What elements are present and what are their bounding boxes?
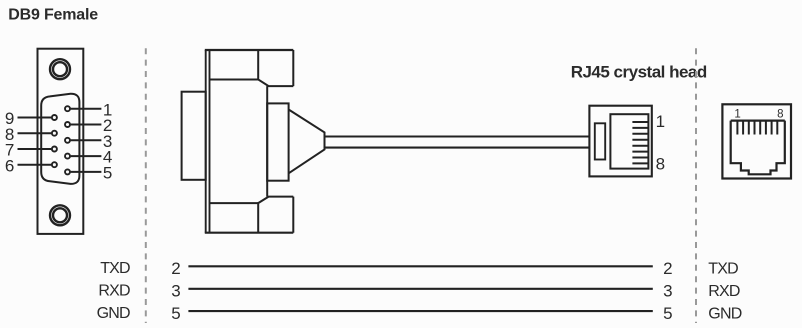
svg-text:GND: GND (97, 305, 130, 322)
RJ45 plug P1 outer body (589, 106, 651, 177)
RJ45 jack contact 5 (759, 121, 761, 135)
svg-text:5: 5 (103, 164, 112, 183)
leader line pin 2 (71, 124, 102, 126)
leader line pin 3 (71, 139, 102, 141)
hood bottom-right block (258, 197, 293, 233)
RJ45 plug latch slot (595, 123, 605, 159)
hood body right edge (266, 86, 268, 197)
RJ45 plug contact 7 (632, 157, 648, 159)
hood top-right block (258, 50, 293, 86)
leader line pin 8 (18, 132, 52, 134)
wire TXD (pin2 to pin2) (188, 265, 652, 267)
hood outline bottom edge (205, 232, 293, 234)
svg-text:2: 2 (171, 259, 180, 278)
RJ45 jack contact 4 (754, 121, 756, 135)
svg-text:GND: GND (708, 305, 741, 322)
leader line pin 6 (18, 164, 52, 166)
left dashed separator (145, 48, 147, 323)
hood left shell rectangle (182, 92, 206, 180)
RJ45 plug contact 2 (632, 127, 648, 129)
svg-text:3: 3 (171, 282, 180, 301)
DB9 pin 6 (52, 162, 57, 167)
DB9 female connector J1 outer body (38, 49, 84, 234)
wire RXD (pin3 to pin3) (188, 288, 652, 290)
svg-text:6: 6 (5, 156, 14, 175)
RJ45 plug contact 1 (632, 121, 648, 123)
DB9 bottom screw hole (50, 205, 70, 225)
svg-text:5: 5 (663, 304, 672, 323)
RJ45 jack contact 6 (765, 121, 767, 135)
svg-text:5: 5 (171, 304, 180, 323)
leader line pin 4 (71, 155, 102, 157)
svg-text:8: 8 (656, 154, 665, 173)
RJ45 jack contact 3 (748, 121, 750, 135)
svg-text:RXD: RXD (98, 283, 130, 300)
RJ45 jack contact 7 (771, 121, 773, 135)
DB9 D-shaped insert (41, 94, 79, 184)
svg-text:DB9 Female: DB9 Female (8, 7, 98, 24)
DB9 top screw hole (50, 59, 70, 79)
wire GND (pin5 to pin5) (188, 310, 652, 312)
DB9 pin 3 (65, 138, 70, 143)
strain relief cone (289, 110, 325, 174)
svg-text:1: 1 (734, 108, 740, 120)
hood bottom cap line (210, 202, 259, 204)
RJ45 plug contact 4 (632, 139, 648, 141)
svg-text:RXD: RXD (708, 283, 740, 300)
RJ45 jack J2 outer body (722, 104, 791, 178)
svg-text:TXD: TXD (708, 261, 738, 278)
hood top cap line (210, 79, 259, 81)
DB9 pin 1 (65, 106, 70, 111)
svg-text:3: 3 (663, 282, 672, 301)
cable bottom line (325, 147, 590, 149)
leader line pin 7 (18, 148, 52, 150)
hood outline top edge (205, 49, 293, 51)
RJ45 plug contact 8 (632, 162, 648, 164)
DB9 hood side view: face plate double line (205, 50, 207, 233)
cable top line (325, 135, 590, 137)
RJ45 plug contact block (610, 114, 648, 168)
DB9 pin 4 (65, 154, 70, 159)
RJ45 jack contact 1 (736, 121, 738, 135)
RJ45 plug contact 6 (632, 151, 648, 153)
RJ45 jack socket outline (731, 121, 785, 175)
svg-text:2: 2 (663, 259, 672, 278)
svg-text:RJ45 crystal head: RJ45 crystal head (571, 63, 707, 82)
DB9 pin 5 (65, 169, 70, 174)
leader line pin 9 (18, 117, 52, 119)
RJ45 jack contact 2 (742, 121, 744, 135)
DB9 pin 7 (52, 147, 57, 152)
RJ45 jack contact 8 (776, 121, 778, 135)
RJ45 plug contact 3 (632, 133, 648, 135)
svg-text:8: 8 (777, 108, 783, 120)
DB9 pin 8 (52, 131, 57, 136)
svg-text:TXD: TXD (100, 260, 130, 277)
svg-text:1: 1 (656, 112, 665, 131)
DB9 pin 9 (52, 115, 57, 120)
leader line pin 1 (71, 108, 102, 110)
RJ45 plug contact 5 (632, 145, 648, 147)
leader line pin 5 (71, 171, 102, 173)
DB9 pin 2 (65, 122, 70, 127)
right dashed separator (695, 48, 697, 323)
hood neck rectangle (267, 103, 288, 180)
